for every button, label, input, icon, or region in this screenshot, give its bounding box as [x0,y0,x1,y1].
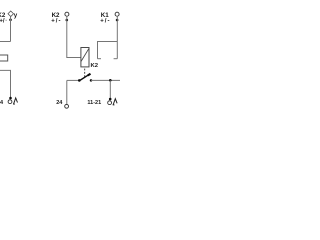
node K2 input label (clipped at left edge) [0,12,7,25]
polarity diamond D1 [8,11,14,17]
terminal circle K2 top [65,12,69,16]
wire K1 branch [98,42,118,59]
plug arrow left [13,98,17,104]
hook right stub [114,58,118,60]
svg-text:24: 24 [56,100,63,106]
switch contact K2 [67,74,92,82]
wire terminal to coil [67,16,81,57]
node K2 label [51,12,61,25]
svg-text:K2: K2 [91,63,99,69]
plug arrow right [113,99,117,105]
coil box K3 (clipped at left edge) [0,55,8,61]
terminal circle 11-21 [108,101,112,105]
terminal circle K1 top [115,12,119,16]
junction dot [9,19,12,22]
junction dot [66,19,69,22]
junction dot [109,98,112,101]
svg-text:11-21: 11-21 [87,100,101,106]
wire down to terminal 11-21 [109,80,111,99]
svg-text:+/-: +/- [100,19,110,25]
relay coil K2 [81,48,89,67]
wire K1 down [116,16,118,59]
junction dot [9,97,12,100]
wire to left edge [0,41,11,43]
mechanical link dashed [84,69,86,77]
node K1 label [100,12,110,25]
wire from diamond down [10,17,12,42]
svg-text:+/: +/ [0,19,5,25]
terminal circle 24 left [8,100,12,104]
wire down to terminal 24 [66,80,68,104]
terminal circle 24 mid [65,104,69,108]
svg-text:+/-: +/- [51,19,61,25]
junction dot [109,79,112,82]
svg-text:y: y [14,12,18,19]
wire contact to right edge [91,79,120,81]
wire from left edge to terminal 24 [0,70,11,97]
hook left stub [98,58,102,60]
junction dot [116,19,119,22]
